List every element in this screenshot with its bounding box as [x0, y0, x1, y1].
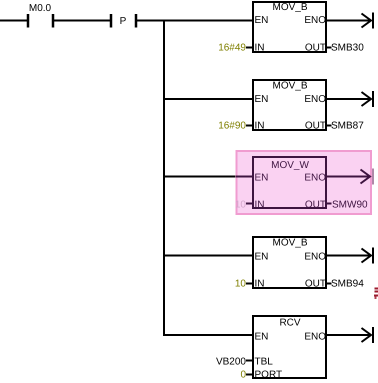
svg-text:EN: EN — [255, 94, 269, 105]
svg-text:SMB87: SMB87 — [331, 121, 364, 132]
svg-text:MOV_W: MOV_W — [271, 160, 309, 171]
wire branch3 — [163, 176, 253, 178]
wire branch4 — [163, 255, 253, 257]
svg-text:EN: EN — [255, 332, 269, 343]
svg-text:EN: EN — [255, 15, 269, 26]
wire U5 PORT tick — [246, 374, 253, 376]
wire U2 ENO out arrow — [326, 91, 373, 107]
svg-text:SMW90: SMW90 — [332, 200, 368, 211]
block U2 MOV_B — [253, 80, 326, 132]
svg-text:10: 10 — [235, 279, 247, 290]
svg-text:OUT: OUT — [305, 279, 326, 290]
block U4 MOV_B — [253, 237, 326, 290]
svg-text:M0.0: M0.0 — [29, 3, 52, 14]
wire U5 TBL tick — [246, 360, 253, 362]
wire U3 IN tick — [246, 203, 253, 205]
svg-text:SMB30: SMB30 — [331, 43, 364, 54]
block U1 MOV_B — [253, 2, 326, 54]
wire U4 ENO out arrow — [326, 248, 373, 264]
svg-text:OUT: OUT — [305, 43, 326, 54]
svg-text:MOV_B: MOV_B — [272, 238, 307, 249]
svg-text:16#90: 16#90 — [218, 121, 246, 132]
rail vertical branch — [163, 20, 165, 337]
wire branch2 — [163, 98, 253, 100]
selection highlight — [237, 151, 372, 214]
svg-text:IN: IN — [255, 121, 265, 132]
svg-text:VB200: VB200 — [216, 357, 246, 368]
block U5 RCV — [253, 316, 326, 381]
wire U2 IN tick — [246, 125, 253, 127]
svg-text:TBL: TBL — [255, 357, 274, 368]
wire U5 ENO out arrow — [326, 327, 373, 343]
svg-text:RCV: RCV — [279, 318, 300, 329]
wire U3 EN stub — [236, 176, 253, 178]
wire between contacts — [54, 20, 110, 22]
wire U1 OUT tick — [326, 47, 332, 49]
svg-text:16#49: 16#49 — [218, 43, 246, 54]
svg-text:IN: IN — [255, 200, 265, 211]
svg-text:OUT: OUT — [305, 200, 326, 211]
svg-text:P: P — [120, 16, 127, 27]
svg-text:EN: EN — [255, 252, 269, 263]
svg-text:ENO: ENO — [304, 173, 326, 184]
svg-text:MOV_B: MOV_B — [272, 81, 307, 92]
svg-text:ENO: ENO — [304, 332, 326, 343]
contact P (positive transition) — [111, 14, 136, 28]
svg-text:10: 10 — [235, 200, 247, 211]
svg-text:EN: EN — [255, 173, 269, 184]
block U3 MOV_W selected — [253, 157, 326, 211]
svg-text:MOV_B: MOV_B — [272, 2, 307, 13]
wire rung1 left segment — [0, 20, 27, 22]
svg-text:IN: IN — [255, 43, 265, 54]
wire rung1 to block1 — [137, 20, 253, 22]
wire U3 OUT tick — [326, 203, 332, 205]
wire U4 OUT tick — [326, 283, 332, 285]
svg-text:ENO: ENO — [304, 94, 326, 105]
wire U3 ENO out arrow — [326, 169, 373, 185]
contact M0.0 — [28, 3, 53, 28]
wire U1 ENO out arrow — [326, 13, 373, 29]
svg-text:PORT: PORT — [255, 370, 283, 381]
svg-text:SMB94: SMB94 — [331, 279, 364, 290]
wire U1 IN tick — [246, 47, 253, 49]
svg-text:ENO: ENO — [304, 252, 326, 263]
wire U2 OUT tick — [326, 125, 332, 127]
svg-text:0: 0 — [240, 370, 246, 381]
wire branch5 — [163, 334, 253, 336]
error marker — [374, 288, 378, 300]
wire U4 IN tick — [246, 283, 253, 285]
svg-text:IN: IN — [255, 279, 265, 290]
svg-text:ENO: ENO — [304, 15, 326, 26]
svg-text:OUT: OUT — [305, 121, 326, 132]
